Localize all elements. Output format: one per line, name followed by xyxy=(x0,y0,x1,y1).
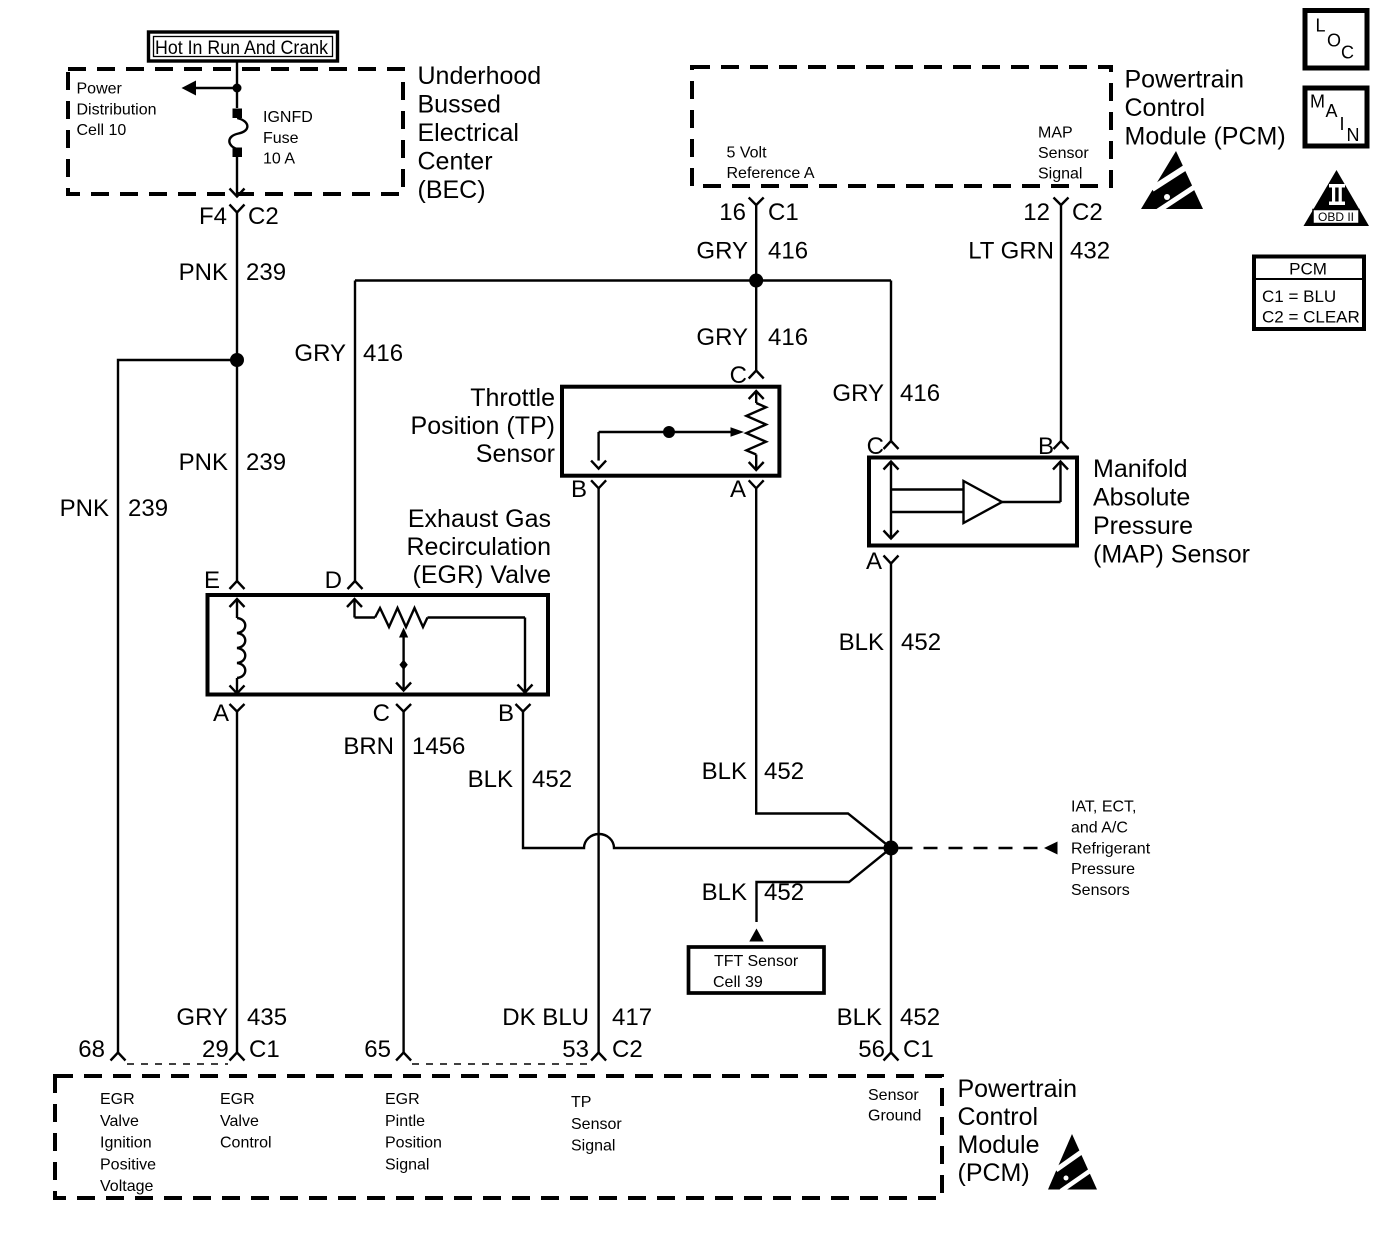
dashed box: Powertrain Control Module (PCM) bottom xyxy=(55,1076,942,1198)
junction node GRY 416 xyxy=(749,274,763,288)
EGR pin D fork xyxy=(348,581,363,589)
MAP output lead xyxy=(1002,462,1068,503)
svg-text:A: A xyxy=(213,700,229,727)
box: MAP sensor xyxy=(869,458,1077,546)
svg-text:Hot In Run And Crank: Hot In Run And Crank xyxy=(155,38,328,59)
svg-text:C: C xyxy=(1341,43,1354,63)
svg-text:E: E xyxy=(204,567,220,594)
wire GRY 416 bus (left to EGR D, right to MAP C) xyxy=(355,279,891,281)
svg-text:I: I xyxy=(1340,114,1345,134)
svg-text:D: D xyxy=(325,567,342,594)
svg-text:BRN: BRN xyxy=(343,733,394,760)
svg-text:TFT Sensor: TFT Sensor xyxy=(714,953,799,970)
box: MAIN symbol xyxy=(1305,88,1367,146)
svg-text:65: 65 xyxy=(364,1036,391,1063)
svg-text:BLK: BLK xyxy=(837,1004,882,1031)
TP pin A fork xyxy=(749,480,764,488)
wire BLK 452 from EGR pin B to ground junction (with hop) xyxy=(523,712,891,849)
svg-text:416: 416 xyxy=(768,324,808,351)
svg-text:C: C xyxy=(730,362,747,389)
box: TFT Sensor Cell 39 xyxy=(689,947,825,993)
EGR pin C fork xyxy=(396,704,411,712)
svg-text:C: C xyxy=(867,433,884,460)
svg-text:PNK: PNK xyxy=(179,259,228,286)
wire PNK 239 branch left to pin 68 xyxy=(118,360,237,1053)
svg-text:416: 416 xyxy=(900,380,940,407)
svg-text:452: 452 xyxy=(901,629,941,656)
connector F4 C2 fork xyxy=(230,205,245,213)
connector pin 16 C1 fork xyxy=(749,198,764,206)
MAP op-amp xyxy=(964,481,1003,523)
wire PNK 239 from junction to EGR pin E xyxy=(236,360,238,581)
wire BLK 452 from TP pin A to ground junction xyxy=(756,488,891,848)
svg-text:F4: F4 xyxy=(199,203,227,230)
svg-text:239: 239 xyxy=(128,495,168,522)
wire LT GRN 432 from pin 12 to MAP pin B xyxy=(1060,205,1062,441)
box: LOC symbol xyxy=(1305,11,1367,69)
TP pin B fork xyxy=(591,480,606,488)
svg-text:29: 29 xyxy=(202,1036,229,1063)
svg-text:C2: C2 xyxy=(248,203,279,230)
TP wiper arm with node xyxy=(591,426,744,469)
svg-text:GRY: GRY xyxy=(294,340,346,367)
junction node PNK xyxy=(230,353,244,367)
svg-text:416: 416 xyxy=(363,340,403,367)
MAP internal input leads xyxy=(884,462,964,539)
svg-text:C1 = BLU: C1 = BLU xyxy=(1262,287,1336,306)
svg-text:BLK: BLK xyxy=(702,758,747,785)
junction dot in BEC xyxy=(233,84,242,93)
svg-text:452: 452 xyxy=(900,1004,940,1031)
svg-text:PCM: PCM xyxy=(1289,260,1327,279)
svg-text:1456: 1456 xyxy=(412,733,465,760)
wire: arrow branch to Power Distribution Cell 10 xyxy=(196,87,237,89)
svg-text:68: 68 xyxy=(78,1036,105,1063)
svg-text:56: 56 xyxy=(858,1036,885,1063)
connector pin 53 fork xyxy=(591,1053,606,1061)
svg-text:BLK: BLK xyxy=(468,766,513,793)
svg-text:OBD II: OBD II xyxy=(1318,210,1354,224)
svg-text:417: 417 xyxy=(612,1004,652,1031)
ESD symbol top xyxy=(1141,151,1203,211)
svg-text:PNK: PNK xyxy=(179,449,228,476)
svg-text:GRY: GRY xyxy=(176,1004,228,1031)
svg-text:L: L xyxy=(1316,16,1326,36)
wire GRY 435 from EGR pin A to pin 29 xyxy=(236,712,238,1053)
svg-text:C1: C1 xyxy=(768,199,799,226)
svg-text:16: 16 xyxy=(719,199,746,226)
connector pin 65 fork xyxy=(396,1053,411,1061)
connector pin 29 fork xyxy=(230,1053,245,1061)
box: Hot In Run And Crank xyxy=(149,32,338,61)
svg-text:C1: C1 xyxy=(903,1036,934,1063)
svg-text:53: 53 xyxy=(562,1036,589,1063)
MAP pin B fork xyxy=(1054,441,1069,449)
connector pin 68 fork xyxy=(111,1053,126,1061)
dashed connector link 65 to 53 xyxy=(412,1063,590,1065)
ESD symbol bottom xyxy=(1048,1134,1097,1191)
svg-text:O: O xyxy=(1327,31,1341,51)
wire DK BLU 417 from TP pin B to pin 53 xyxy=(597,488,599,1052)
svg-text:LT GRN: LT GRN xyxy=(968,238,1054,265)
TP pin C fork xyxy=(749,371,764,379)
svg-text:Cell 39: Cell 39 xyxy=(713,974,763,991)
EGR pin E fork xyxy=(230,581,245,589)
EGR pintle position resistive element xyxy=(347,599,533,693)
wire BLK 452 from MAP pin A through junction to pin 56 xyxy=(890,564,892,1053)
dashed connector link 68 to 29 xyxy=(127,1063,228,1065)
svg-text:A: A xyxy=(730,476,746,503)
arrow to IAT ECT AC sensors xyxy=(1044,842,1058,855)
wire GRY 416 left branch down to EGR pin D xyxy=(354,281,356,582)
box: Throttle Position (TP) Sensor xyxy=(562,387,779,476)
svg-text:416: 416 xyxy=(768,238,808,265)
svg-text:DK BLU: DK BLU xyxy=(502,1004,589,1031)
svg-text:GRY: GRY xyxy=(696,238,748,265)
svg-text:239: 239 xyxy=(246,449,286,476)
svg-text:B: B xyxy=(1038,433,1054,460)
svg-text:C2 = CLEAR: C2 = CLEAR xyxy=(1262,308,1360,327)
fuse IGNFD 10 A xyxy=(229,109,247,158)
wire: hot feed from Hot In Run And Crank into BEC xyxy=(236,61,238,108)
OBD II symbol xyxy=(1304,170,1370,226)
svg-text:Exhaust GasRecirculation(EGR): Exhaust GasRecirculation(EGR) Valve xyxy=(406,505,551,589)
svg-text:435: 435 xyxy=(247,1004,287,1031)
svg-text:432: 432 xyxy=(1070,238,1110,265)
dashed box: Powertrain Control Module (PCM) top xyxy=(692,67,1111,186)
ground junction node xyxy=(884,841,899,856)
svg-text:C: C xyxy=(373,700,390,727)
wire GRY 416 right branch down to MAP pin C xyxy=(890,281,892,442)
wire GRY 416 from pin 16 to junction xyxy=(755,205,757,371)
svg-text:A: A xyxy=(1326,101,1338,121)
svg-text:N: N xyxy=(1347,125,1360,145)
svg-text:12: 12 xyxy=(1023,199,1050,226)
svg-text:A: A xyxy=(866,548,882,575)
EGR pin A fork xyxy=(230,704,245,712)
svg-text:239: 239 xyxy=(246,259,286,286)
EGR solenoid coil xyxy=(230,599,246,693)
svg-text:M: M xyxy=(1310,92,1325,112)
connector pin 12 C2 fork xyxy=(1054,198,1069,206)
svg-text:B: B xyxy=(571,476,587,503)
wire BLK 452 branch to TFT sensor xyxy=(757,848,892,922)
EGR pin B fork xyxy=(516,704,531,712)
connector pin 56 fork xyxy=(884,1053,899,1061)
MAP pin C fork xyxy=(884,441,899,449)
wire BRN 1456 from EGR pin C to pin 65 xyxy=(402,712,404,1053)
svg-text:GRY: GRY xyxy=(832,380,884,407)
svg-text:452: 452 xyxy=(532,766,572,793)
connector arrow into TFT sensor xyxy=(749,929,763,942)
dashed wire to IAT ECT AC sensors xyxy=(899,847,1041,849)
svg-text:GRY: GRY xyxy=(696,324,748,351)
svg-text:C2: C2 xyxy=(1072,199,1103,226)
table: PCM connector legend xyxy=(1254,257,1364,330)
svg-text:C2: C2 xyxy=(612,1036,643,1063)
arrow at BEC exit xyxy=(230,189,245,197)
wire: fuse output to BEC edge xyxy=(236,157,238,196)
svg-text:PNK: PNK xyxy=(60,495,109,522)
svg-text:BLK: BLK xyxy=(839,629,884,656)
dashed box: Underhood Bussed Electrical Center (BEC) xyxy=(68,69,403,194)
svg-text:C1: C1 xyxy=(249,1036,280,1063)
EGR pintle wiper xyxy=(396,628,411,691)
svg-text:BLK: BLK xyxy=(702,879,747,906)
svg-text:452: 452 xyxy=(764,879,804,906)
svg-text:452: 452 xyxy=(764,758,804,785)
TP potentiometer resistive element xyxy=(746,391,766,470)
svg-text:B: B xyxy=(498,700,514,727)
wire PNK 239 from F4 to junction xyxy=(236,213,238,361)
MAP pin A fork xyxy=(884,556,899,564)
box: EGR Valve xyxy=(208,595,549,695)
